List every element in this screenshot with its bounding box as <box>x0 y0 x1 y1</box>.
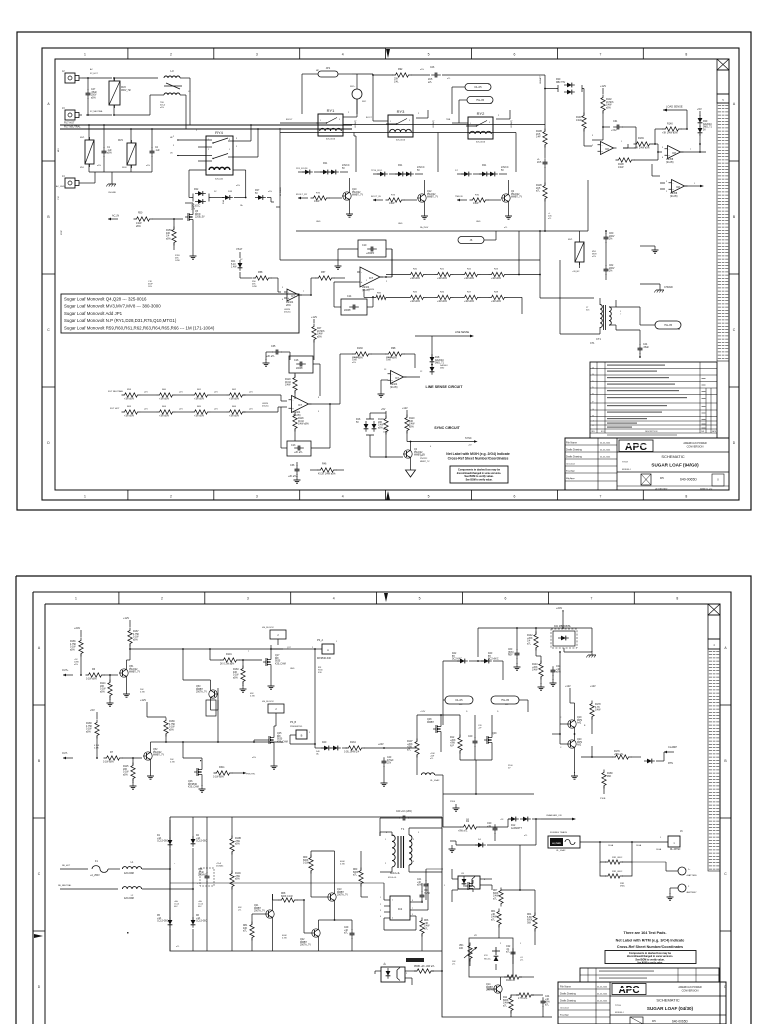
svg-text:R143: R143 <box>532 664 538 666</box>
svg-text:640-0065D: 640-0065D <box>680 478 697 482</box>
net LOAD SENSE arrow <box>663 105 687 112</box>
svg-text:5: 5 <box>428 495 430 499</box>
net pill DL-05 J13 <box>443 696 473 706</box>
svg-text:4: 4 <box>430 446 432 448</box>
svg-text:MPS: MPS <box>577 742 582 744</box>
svg-text:5: 5 <box>419 597 421 601</box>
svg-text:R10C: R10C <box>235 873 241 875</box>
svg-text:R179: R179 <box>614 751 620 753</box>
wire top rail relays <box>372 74 545 84</box>
svg-text:D1A: D1A <box>222 199 225 204</box>
value labels RY4 pins <box>173 130 238 148</box>
value labels relay bus nets <box>286 117 451 121</box>
svg-text:C61: C61 <box>613 120 618 123</box>
wire C28 <box>206 817 208 951</box>
svg-text:R7: R7 <box>110 751 114 754</box>
svg-text:0.1W: 0.1W <box>169 727 175 729</box>
capacitor C47 <box>86 89 98 99</box>
svg-text:IC8: IC8 <box>672 152 676 155</box>
net pill 75L-05 J13 <box>489 696 519 706</box>
svg-text:C16: C16 <box>294 359 299 362</box>
svg-text:250VAC: 250VAC <box>198 874 207 877</box>
svg-text:a5%: a5% <box>409 426 414 428</box>
svg-text:600K: 600K <box>353 872 359 874</box>
svg-text:.01: .01 <box>506 949 510 951</box>
svg-text:16GA: 16GA <box>656 848 662 851</box>
svg-text:C44: C44 <box>643 344 648 346</box>
svg-text:20K: 20K <box>378 422 383 424</box>
transformer T1 primary <box>392 827 405 867</box>
svg-text:R134: R134 <box>350 741 356 744</box>
svg-text:0.1W: 0.1W <box>86 729 92 731</box>
svg-text:30.1K: 30.1K <box>285 382 292 384</box>
svg-text:5: 5 <box>428 53 430 57</box>
net pill DL-05 J5 upper <box>452 84 491 115</box>
svg-text:Q45: Q45 <box>277 733 282 735</box>
svg-text:R118: R118 <box>298 418 304 420</box>
wire IC7 out <box>309 403 340 405</box>
wire D41 rail to Q19 base <box>559 651 561 724</box>
svg-text:2: 2 <box>348 112 350 114</box>
value labels sheet2 battery extra <box>620 848 662 888</box>
svg-text:36K: 36K <box>607 776 612 778</box>
svg-text:R178: R178 <box>595 704 601 706</box>
relay RY2 <box>466 111 493 144</box>
svg-text:325-0016: 325-0016 <box>396 140 406 142</box>
svg-text:a7L: a7L <box>520 960 524 962</box>
svg-text:20.5K6: 20.5K6 <box>317 331 325 333</box>
wire D18 <box>415 336 433 365</box>
svg-text:0.1W: 0.1W <box>123 772 129 774</box>
svg-text:AC: AC <box>90 68 93 71</box>
svg-text:D: D <box>466 711 468 713</box>
svg-text:LM358: LM358 <box>666 159 674 161</box>
sheet 1 inner drawing border <box>55 59 729 490</box>
svg-text:R61: R61 <box>197 389 202 391</box>
svg-text:Cross-Ref Sheet Number/Coordin: Cross-Ref Sheet Number/Coordinates <box>617 945 683 949</box>
svg-text:75L-05: 75L-05 <box>501 698 510 702</box>
svg-text:SCHEMATIC: SCHEMATIC <box>656 998 679 1003</box>
svg-text:25V: 25V <box>387 763 392 765</box>
svg-text:2907A_7V: 2907A_7V <box>300 944 311 947</box>
svg-text:DL-05: DL-05 <box>474 85 482 89</box>
svg-text:SYNC CIRCUIT: SYNC CIRCUIT <box>434 426 460 430</box>
svg-text:REF: REF <box>508 655 513 657</box>
svg-text:06C: 06C <box>198 906 202 908</box>
diode D40 pair <box>321 742 341 750</box>
battery terminal negative <box>670 884 697 894</box>
svg-text:C: C <box>47 328 50 332</box>
svg-text:5MD_T1: 5MD_T1 <box>703 127 713 129</box>
svg-text:IC7: IC7 <box>369 276 374 280</box>
svg-text:+4A: +4A <box>198 900 202 903</box>
svg-text:+: + <box>288 296 290 300</box>
svg-text:See BOM to verify value.: See BOM to verify value. <box>637 961 663 964</box>
capacitor C51 <box>420 890 431 901</box>
svg-text:2: 2 <box>406 973 408 975</box>
power +24V charger <box>556 606 563 612</box>
op-amp IC7 line sense <box>388 371 407 389</box>
wire Q5 source down <box>192 223 194 252</box>
svg-text:2W: 2W <box>466 819 469 821</box>
wire chokes to bridge <box>142 869 193 889</box>
value labels mid bus <box>420 226 508 229</box>
wire RY3 coil return <box>416 110 438 168</box>
svg-text:IC8: IC8 <box>676 186 680 189</box>
power +12V charger pair <box>565 685 596 703</box>
svg-text:3: 3 <box>256 53 258 57</box>
svg-text:D33: D33 <box>228 191 233 193</box>
svg-text:C2: C2 <box>155 147 159 149</box>
resistor R115 <box>123 763 135 782</box>
svg-text:R64: R64 <box>527 914 532 916</box>
diode D32 parallel pair <box>191 189 211 210</box>
svg-text:+1M a5%: +1M a5% <box>410 301 420 303</box>
svg-text:+: + <box>672 187 674 191</box>
resistor R168 <box>86 720 99 739</box>
svg-text:R50B +2K +5W a7L: R50B +2K +5W a7L <box>414 966 435 968</box>
svg-text:R75: R75 <box>316 193 321 195</box>
svg-text:R65: R65 <box>197 406 202 408</box>
wire C44 down <box>639 353 641 358</box>
resistor R13 charger <box>516 993 534 1000</box>
svg-text:K: K <box>592 425 594 427</box>
svg-text:a5%: a5% <box>91 97 96 99</box>
svg-text:8: 8 <box>685 53 687 57</box>
svg-text:CT1: CT1 <box>596 337 601 341</box>
resistor R107 charger <box>407 739 419 758</box>
svg-text:R25: R25 <box>413 291 418 293</box>
varistor MV1 output <box>568 231 584 268</box>
svg-text:2: 2 <box>418 113 420 115</box>
svg-text:a7L: a7L <box>407 749 412 751</box>
svg-text:+12V: +12V <box>123 616 129 620</box>
svg-text:Eng Appr: Eng Appr <box>566 470 575 473</box>
svg-text:R130: R130 <box>357 347 363 350</box>
svg-text:C21: C21 <box>417 879 422 881</box>
svg-text:R98: R98 <box>391 347 396 350</box>
resistor R63 psu <box>353 868 363 887</box>
svg-text:1/4W: 1/4W <box>386 360 391 362</box>
svg-text:R6: R6 <box>92 668 96 671</box>
svg-text:Q17: Q17 <box>275 655 280 657</box>
wire RY4 coil left down <box>189 170 206 194</box>
svg-text:C36: C36 <box>290 464 295 467</box>
svg-text:+: + <box>292 406 294 410</box>
ground Q4 triangle <box>406 468 416 477</box>
wire FILT NEUTRAL rail <box>60 125 352 129</box>
svg-text:FUSIBLE TRACE: FUSIBLE TRACE <box>550 831 568 834</box>
svg-text:CONVERSION: CONVERSION <box>687 446 704 449</box>
svg-text:MMBT_7V: MMBT_7V <box>153 755 164 757</box>
svg-text:a7L: a7L <box>506 952 511 954</box>
capacitor C36 <box>288 464 300 478</box>
svg-text:20.5K6: 20.5K6 <box>606 102 614 104</box>
svg-text:1: 1 <box>84 495 86 499</box>
value labels sheet2 battery <box>608 837 662 847</box>
net VS17 label <box>236 247 243 258</box>
resistor R178 <box>590 701 601 720</box>
svg-text:+1M a5%: +1M a5% <box>491 278 501 280</box>
wire relay NO bus <box>343 124 545 126</box>
connector PS_B <box>290 721 307 739</box>
capacitor C21 <box>417 879 429 890</box>
net FILT NEUTRAL chain <box>106 390 124 395</box>
svg-text:Q2: Q2 <box>511 191 515 193</box>
svg-text:IC7: IC7 <box>291 295 295 298</box>
svg-text:04-05-2004: 04-05-2004 <box>597 994 608 996</box>
wire U4 nets <box>375 970 443 985</box>
svg-text:Cross-Ref Sheet Number/Coordin: Cross-Ref Sheet Number/Coordinates <box>448 457 509 461</box>
svg-text:RTN: RTN <box>668 762 673 765</box>
svg-text:a7L: a7L <box>238 910 242 912</box>
svg-text:CT1: CT1 <box>590 342 595 345</box>
svg-text:VR1: VR1 <box>459 945 464 947</box>
value labels D33 L5 row <box>228 191 272 207</box>
svg-text:Eng Appr: Eng Appr <box>560 1014 569 1017</box>
wire MV bank bottom to ground <box>89 156 152 180</box>
svg-text:5: 5 <box>662 147 664 149</box>
resistor R120 <box>285 375 297 394</box>
svg-text:GND: GND <box>316 221 321 223</box>
wire fusible trace to J6 <box>536 841 668 845</box>
diode D16 clamp pair <box>356 417 376 437</box>
transistor Q4 sync <box>403 448 425 460</box>
svg-text:10K: 10K <box>459 948 464 950</box>
wire R66 psu <box>422 910 442 951</box>
svg-text:Q20: Q20 <box>577 739 582 741</box>
svg-text:43K: 43K <box>243 928 248 930</box>
wire relay driver bus <box>296 168 588 231</box>
svg-text:CHARGER_ON: CHARGER_ON <box>546 814 562 817</box>
capacitor C34 <box>551 666 561 676</box>
svg-text:12V/B(T): 12V/B(T) <box>511 120 513 128</box>
net label UNBATT rotated <box>539 75 542 84</box>
svg-text:There are 164 Test Pads.: There are 164 Test Pads. <box>624 931 667 935</box>
wire Q5 drain up <box>185 203 193 211</box>
svg-text:.68uF: .68uF <box>91 92 98 94</box>
svg-text:Q4: Q4 <box>414 449 418 451</box>
resistor R134 <box>344 741 365 754</box>
wire charger sense grid <box>499 845 535 945</box>
svg-text:0R0C: 0R0C <box>620 886 626 888</box>
power +5V sync <box>381 408 386 414</box>
net OUT- arrow <box>62 752 73 759</box>
svg-text:a5%: a5% <box>268 191 272 193</box>
svg-text:+: + <box>668 153 670 157</box>
wire R101 to Q17 <box>209 648 262 660</box>
diode D1A inline <box>222 195 233 204</box>
svg-text:4: 4 <box>380 916 381 918</box>
svg-text:RY1: RY1 <box>327 108 335 113</box>
svg-text:C63: C63 <box>508 649 513 651</box>
svg-text:C18: C18 <box>58 195 60 200</box>
wire C20 snubber <box>380 818 442 836</box>
svg-text:R64: R64 <box>162 406 167 408</box>
svg-text:K30_CHM: K30_CHM <box>277 741 288 743</box>
svg-text:C47: C47 <box>91 89 96 91</box>
svg-text:R141: R141 <box>576 117 582 119</box>
wire bleeders <box>231 817 233 951</box>
svg-text:04-05-2004: 04-05-2004 <box>600 450 611 452</box>
svg-text:R311: R311 <box>219 766 225 769</box>
svg-text:+1M a5%: +1M a5% <box>124 416 134 418</box>
svg-text:470uF: 470uF <box>387 760 394 762</box>
svg-text:IC8: IC8 <box>484 955 488 957</box>
svg-text:30.1K: 30.1K <box>298 421 305 423</box>
svg-text:T1: T1 <box>401 827 405 831</box>
op-amp IC8 section <box>665 146 684 164</box>
svg-text:GND: GND <box>398 223 403 225</box>
svg-text:.1uF: .1uF <box>107 150 112 152</box>
svg-text:5: 5 <box>282 287 284 289</box>
wire choke L3 right to rails <box>180 78 190 129</box>
capacitor C2 input <box>150 147 161 157</box>
svg-text:DBLT 5V: DBLT 5V <box>556 82 566 84</box>
op-amp IC6 <box>598 142 617 155</box>
value labels sheet2 Q17 zone <box>248 647 295 670</box>
svg-text:A: A <box>47 102 50 106</box>
svg-text:MV1: MV1 <box>568 239 573 241</box>
svg-text:0.1W: 0.1W <box>340 864 345 866</box>
svg-text:3: 3 <box>409 120 410 122</box>
svg-text:+5W: +5W <box>235 876 241 878</box>
transformer T1 core <box>398 836 404 868</box>
ground battery negative <box>667 893 674 900</box>
svg-text:J6: J6 <box>470 238 473 242</box>
svg-text:D16: D16 <box>356 419 361 421</box>
svg-text:640-0065D: 640-0065D <box>672 1020 688 1024</box>
svg-text:325: 325 <box>586 310 590 312</box>
svg-text:a7L: a7L <box>524 835 528 837</box>
value labels sheet2 extra A <box>74 659 255 698</box>
svg-text:600K: 600K <box>527 920 533 922</box>
svg-text:04-05-2004: 04-05-2004 <box>597 1001 608 1003</box>
value labels sync detail <box>420 455 430 463</box>
wire RY1 contact left to edge <box>280 122 318 124</box>
svg-text:12A600TT: 12A600TT <box>511 827 522 830</box>
svg-text:File Name: File Name <box>560 986 572 989</box>
wire D37 hook <box>267 198 274 203</box>
svg-text:+1F: +1F <box>478 728 482 730</box>
svg-text:J6: J6 <box>490 103 493 105</box>
wire R159 <box>173 218 175 250</box>
svg-text:06C: 06C <box>174 906 178 908</box>
resistor R81 <box>243 922 254 941</box>
wire sync nodes <box>370 413 407 458</box>
svg-text:R101: R101 <box>226 653 232 656</box>
svg-text:2U5: 2U5 <box>536 134 541 136</box>
svg-text:3: 3 <box>380 910 381 912</box>
wire Q17 to PS_A node <box>270 648 315 650</box>
svg-text:6: 6 <box>514 495 516 499</box>
svg-text:MPS: MPS <box>577 720 582 722</box>
svg-text:DL-05: DL-05 <box>455 698 463 702</box>
svg-text:2: 2 <box>592 145 594 147</box>
power +5V rail B <box>90 708 97 719</box>
value labels relay RY3 zone <box>418 113 420 115</box>
svg-text:1/4W: 1/4W <box>409 424 415 426</box>
svg-text:PN2222: PN2222 <box>511 194 520 196</box>
svg-text:D5: D5 <box>660 476 664 480</box>
svg-text:1/4W: 1/4W <box>473 203 479 205</box>
svg-text:+1M a5%: +1M a5% <box>464 278 474 280</box>
svg-text:380V: 380V <box>122 167 127 169</box>
svg-text:IRF9530-K30: IRF9530-K30 <box>317 658 332 660</box>
svg-text:-: - <box>288 290 289 294</box>
svg-text:Sugar Loaf Monovolt N.P (RY1,: Sugar Loaf Monovolt N.P (RY1,D28,D31,R75… <box>64 318 177 323</box>
svg-text:MMBT: MMBT <box>427 722 434 724</box>
svg-text:PN2222: PN2222 <box>352 192 361 194</box>
resistor R68 <box>279 893 298 902</box>
sheet 1 bottom center alignment arrow <box>386 491 390 500</box>
svg-text:4.7K: 4.7K <box>595 707 600 709</box>
svg-text:a7L: a7L <box>493 898 498 900</box>
svg-text:a5%: a5% <box>160 107 164 109</box>
svg-text:2: 2 <box>385 863 387 865</box>
svg-text:6: 6 <box>514 53 516 57</box>
capacitor C1 input <box>102 147 113 157</box>
svg-text:RY3: RY3 <box>397 109 405 114</box>
svg-text:2907A_7V: 2907A_7V <box>196 691 207 694</box>
battery terminal positive <box>632 862 698 877</box>
relay RY1 driver Q10 with diodes D28 D31 resistor R75 <box>296 163 363 217</box>
svg-text:1/4: 1/4 <box>166 236 170 238</box>
wire mid horizontal bus upper <box>276 128 280 260</box>
svg-text:20K: 20K <box>394 79 399 81</box>
svg-text:a5%: a5% <box>352 362 356 364</box>
svg-text:R120: R120 <box>285 379 291 381</box>
svg-text:R70: R70 <box>475 195 480 197</box>
wire JP1 rail <box>302 74 373 114</box>
svg-text:a5%: a5% <box>317 336 322 338</box>
svg-text:OUT+: OUT+ <box>62 669 69 672</box>
svg-text:R140: R140 <box>667 123 673 126</box>
sheet 1 SYNC CIRCUIT caption <box>434 426 460 430</box>
power +12V sync <box>402 407 408 413</box>
svg-text:J6: J6 <box>680 830 683 833</box>
svg-text:a7L: a7L <box>503 1005 508 1007</box>
sheet 1 net label note text <box>446 452 510 461</box>
resistor R163 gate pulldown <box>233 666 245 685</box>
svg-text:R47: R47 <box>317 328 322 330</box>
transformer CT1 primary <box>596 305 602 342</box>
svg-text:+3K 1/4W a5%: +3K 1/4W a5% <box>662 132 678 134</box>
wire D30 row <box>544 88 584 112</box>
svg-text:a5%: a5% <box>179 392 183 394</box>
wire R68 <box>273 894 305 900</box>
svg-text:AC_GND: AC_GND <box>56 185 65 188</box>
svg-text:3: 3 <box>592 135 594 137</box>
wire MV2 vertical <box>113 77 115 116</box>
svg-text:5: 5 <box>409 130 410 132</box>
svg-text:9530: 9530 <box>277 739 283 741</box>
svg-text:8: 8 <box>412 900 413 902</box>
wire charger divider <box>514 627 557 690</box>
resistor R9 battery sense <box>600 862 632 878</box>
svg-text:8: 8 <box>676 597 678 601</box>
transistor Q53 component box <box>206 700 216 716</box>
svg-text:JN: JN <box>170 153 173 155</box>
svg-text:C32: C32 <box>506 946 511 948</box>
value labels MV bank <box>80 165 150 169</box>
wire D42 D43 row <box>443 657 503 712</box>
svg-text:+1M a5%: +1M a5% <box>437 301 447 303</box>
wire RY3 left pin <box>373 75 388 121</box>
resistor R92 feedback <box>373 292 389 299</box>
svg-text:+24V: +24V <box>378 743 384 746</box>
svg-text:F2_NEUTRAL: F2_NEUTRAL <box>90 110 104 113</box>
